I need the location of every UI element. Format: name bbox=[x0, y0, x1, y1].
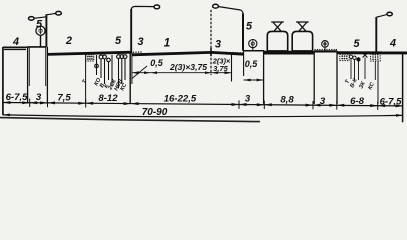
svg-text:5: 5 bbox=[115, 35, 122, 47]
trolleybus TB1 pantograph bbox=[271, 22, 284, 31]
mast M2 arm bbox=[218, 7, 243, 15]
svg-text:1: 1 bbox=[164, 38, 170, 50]
street lamp L1 right luminaire bbox=[56, 11, 62, 15]
duct block right B bbox=[371, 53, 381, 61]
utility labels left bbox=[81, 77, 128, 92]
svg-text:8,8: 8,8 bbox=[280, 94, 294, 105]
street lamp L1 left luminaire bbox=[29, 17, 35, 21]
street lamp L1 left arm bbox=[34, 17, 46, 19]
svg-text:3: 3 bbox=[245, 93, 251, 104]
ext line right carriageway bbox=[231, 53, 233, 82]
arrowhead right roaddim bbox=[225, 71, 232, 74]
baseline ground border bbox=[0, 118, 260, 122]
trolley roadway bbox=[264, 51, 314, 55]
ext line zone2/5 bbox=[85, 55, 87, 104]
svg-text:2(3)×3,75: 2(3)×3,75 bbox=[169, 62, 207, 72]
utility labels right bbox=[344, 77, 376, 91]
telephone duct block right A bbox=[340, 54, 349, 60]
svg-text:16-22,5: 16-22,5 bbox=[164, 94, 197, 105]
street lamp L1 right arm bbox=[46, 13, 56, 15]
svg-text:0,5: 0,5 bbox=[150, 58, 164, 68]
arrowhead median left bbox=[244, 79, 251, 82]
mast A arm bbox=[131, 6, 154, 9]
sidewalk left surface bbox=[3, 47, 28, 49]
utility lines right bbox=[351, 57, 375, 80]
arrow pair at centerline bbox=[205, 71, 218, 74]
svg-text:6-8: 6-8 bbox=[350, 96, 365, 107]
telephone duct block left bbox=[86, 55, 94, 61]
verge dots bbox=[315, 49, 336, 51]
svg-text:70-90: 70-90 bbox=[142, 107, 168, 118]
svg-text:7,5: 7,5 bbox=[57, 93, 71, 104]
arrowhead median right bbox=[257, 79, 264, 82]
gutter dots left bbox=[134, 51, 142, 53]
curb left bbox=[129, 51, 131, 104]
svg-text:Т: Т bbox=[81, 79, 88, 85]
utility circles right bbox=[349, 55, 360, 61]
tree T1 trunk bbox=[40, 35, 42, 47]
trolleybus TB2 body bbox=[292, 31, 312, 51]
svg-text:5: 5 bbox=[353, 38, 360, 50]
svg-text:4: 4 bbox=[389, 38, 396, 50]
svg-text:3: 3 bbox=[320, 96, 326, 107]
tree T3 crown bbox=[322, 41, 329, 48]
street lamp L3 pole bbox=[375, 17, 377, 52]
cable X symbol right bbox=[363, 53, 368, 58]
utility lines left group bbox=[97, 55, 126, 88]
tree T3 trunk bbox=[324, 47, 326, 51]
arrow pair at 150 bbox=[144, 71, 157, 74]
dim ticks row1 bbox=[30, 99, 378, 110]
lamp strip right edge bbox=[45, 47, 47, 86]
median island left edge bbox=[243, 50, 245, 76]
street lamp L3 luminaire bbox=[387, 12, 392, 16]
svg-text:8-12: 8-12 bbox=[98, 93, 118, 104]
green strip edge lines bbox=[27, 47, 29, 104]
mast M2 pole bbox=[242, 14, 244, 51]
arrowhead left roaddim bbox=[132, 71, 139, 74]
svg-text:ЗК: ЗК bbox=[358, 80, 367, 89]
tree T2 crown bbox=[249, 40, 257, 48]
svg-text:6-7,5: 6-7,5 bbox=[6, 92, 29, 103]
zone 2 and 5 surface bbox=[47, 52, 131, 54]
right sidewalk surface bbox=[337, 51, 407, 54]
svg-text:3: 3 bbox=[36, 92, 42, 103]
svg-text:6-7,5: 6-7,5 bbox=[380, 97, 403, 108]
svg-text:0,5: 0,5 bbox=[245, 59, 259, 69]
svg-text:3,75: 3,75 bbox=[213, 64, 228, 73]
dim arrows row1 bbox=[3, 101, 403, 107]
ext line right of techstrip bbox=[377, 62, 379, 105]
street lamp L1 pole bbox=[45, 14, 47, 47]
gutter dots right bbox=[233, 52, 243, 54]
dim line 0,5 median bbox=[244, 79, 264, 81]
svg-text:3: 3 bbox=[137, 36, 143, 48]
dimension row 1 line bbox=[3, 103, 403, 106]
utility line tops circles left bbox=[95, 55, 127, 68]
arrows row2 bbox=[3, 114, 403, 117]
road centerline dashed bbox=[210, 10, 212, 75]
ext line trolley right bbox=[313, 51, 315, 104]
tree T1 crown bbox=[36, 26, 45, 35]
median island right edge bbox=[263, 50, 265, 104]
slope mark under curb bbox=[132, 66, 147, 79]
tree T2 trunk bbox=[252, 47, 254, 51]
verge strip top bbox=[314, 50, 337, 52]
svg-text:КС: КС bbox=[367, 81, 376, 91]
svg-text:2: 2 bbox=[65, 35, 72, 47]
roadway surface bbox=[132, 52, 244, 54]
median island top bbox=[244, 50, 264, 52]
trolleybus TB1 body bbox=[267, 31, 287, 51]
dim texts row1 bbox=[6, 92, 403, 108]
svg-text:5: 5 bbox=[246, 21, 253, 33]
svg-text:5: 5 bbox=[36, 19, 43, 31]
mast A pole at curb bbox=[130, 9, 132, 52]
svg-text:3: 3 bbox=[215, 39, 221, 51]
green strip top bbox=[28, 46, 46, 48]
dimension row 2 line 70-90 bbox=[3, 115, 403, 117]
ext line sidewalk right bbox=[336, 51, 338, 104]
building line left bbox=[2, 47, 4, 115]
dim line under road bbox=[132, 72, 232, 74]
street lamp L3 arm bbox=[376, 14, 387, 17]
trolleybus TB2 pantograph bbox=[296, 22, 309, 31]
building line right bbox=[402, 52, 404, 122]
mast A luminaire bbox=[154, 5, 160, 9]
mast M2 luminaire bbox=[213, 4, 219, 8]
svg-text:4: 4 bbox=[12, 36, 19, 48]
